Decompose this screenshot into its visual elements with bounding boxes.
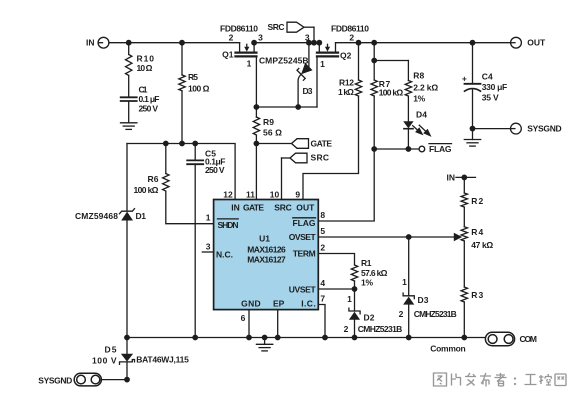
svg-text:1: 1: [320, 59, 325, 69]
svg-text:UVSET: UVSET: [289, 284, 317, 294]
svg-text:Q1: Q1: [222, 49, 234, 59]
svg-text:4: 4: [320, 278, 325, 288]
svg-text:1%: 1%: [413, 93, 425, 103]
svg-text:1: 1: [347, 294, 352, 304]
svg-text:1: 1: [402, 277, 407, 287]
svg-text:MAX16127: MAX16127: [247, 255, 286, 265]
node FLAG net: [371, 146, 419, 152]
terminal FLAG: [419, 144, 452, 155]
svg-text:FDD86110: FDD86110: [220, 23, 258, 33]
node OVSET/D3 tap: [406, 234, 412, 240]
pin numbers top: [223, 189, 300, 199]
capacitor C5: [187, 144, 225, 338]
node gate/R9: [254, 104, 260, 110]
wire pin 4 UVSET: [318, 288, 354, 290]
svg-text:D3: D3: [303, 86, 313, 96]
node Q1 source: [251, 40, 257, 46]
svg-text:100 V: 100 V: [92, 356, 117, 366]
transistor Q1 FDD86110: [220, 23, 263, 68]
capacitor C1: [121, 84, 160, 113]
svg-text:SRC: SRC: [274, 203, 292, 213]
svg-text:D3: D3: [418, 295, 429, 305]
resistor R2: [461, 177, 483, 207]
svg-text:OUT: OUT: [296, 203, 315, 213]
svg-text:SYSGND: SYSGND: [527, 124, 562, 134]
watermark 图片发布者：工控网: [434, 373, 567, 387]
terminal IN: [86, 37, 109, 48]
svg-text:SRC: SRC: [311, 153, 330, 163]
svg-text:57.6 kΩ: 57.6 kΩ: [361, 268, 388, 278]
svg-text:250 V: 250 V: [205, 165, 225, 175]
svg-text:OVSET: OVSET: [289, 232, 317, 242]
node D5 / SYSGND line: [124, 377, 130, 383]
potentiometer R4: [461, 227, 493, 250]
svg-text:CMHZ5231B: CMHZ5231B: [358, 324, 403, 334]
wire R2 to R4: [463, 207, 465, 227]
resistor R9: [253, 107, 282, 138]
wire FLAG to pin 8: [318, 149, 374, 221]
svg-text:3: 3: [305, 33, 310, 43]
svg-text:1%: 1%: [361, 278, 373, 288]
wire D1 to bottom rail: [126, 221, 128, 338]
svg-text:CMPZ5245B: CMPZ5245B: [259, 55, 309, 65]
svg-text:SYSGND: SYSGND: [38, 375, 72, 385]
zener D3 CMPZ5245B: [259, 43, 313, 107]
capacitor C4: [462, 40, 507, 129]
node R6 top: [163, 141, 169, 147]
svg-text:10 Ω: 10 Ω: [137, 63, 153, 73]
svg-text:GATE: GATE: [311, 138, 333, 148]
svg-text:2: 2: [344, 324, 349, 334]
flag SRC middle: [282, 153, 330, 200]
svg-text:100 kΩ: 100 kΩ: [379, 88, 404, 98]
wire R9 bottom to pin 11: [255, 136, 257, 200]
connector SYSGND bottom left: [38, 373, 101, 386]
svg-text:R10: R10: [137, 54, 155, 64]
node rail left / D5: [124, 335, 130, 341]
wire to SYSGND terminal: [473, 128, 511, 130]
resistor R1: [351, 258, 387, 289]
svg-text:GATE: GATE: [243, 203, 264, 213]
wire D1 column: [126, 144, 128, 212]
svg-text:56 Ω: 56 Ω: [263, 128, 282, 138]
node R10 top: [126, 40, 132, 46]
svg-text:SRC: SRC: [268, 22, 285, 32]
node R5 bottom: [179, 141, 185, 147]
wire GND riser: [248, 310, 250, 338]
svg-text:9: 9: [295, 189, 300, 199]
svg-text:R6: R6: [148, 174, 159, 184]
svg-text:R1: R1: [361, 258, 372, 268]
node R12 top: [356, 40, 362, 46]
node pin7 rail: [322, 335, 328, 341]
zener D1 CMZ59468: [75, 209, 146, 222]
wire Q2 gate down: [316, 56, 318, 107]
pin 3 N.C. stub: [202, 242, 213, 252]
svg-text:R8: R8: [413, 70, 424, 80]
svg-text:3: 3: [258, 33, 263, 43]
svg-text:Q2: Q2: [340, 50, 352, 60]
IC U1 MAX16126/MAX16127: [214, 200, 319, 310]
svg-text:11: 11: [246, 189, 255, 199]
node D3 cathode: [295, 104, 301, 110]
svg-text:D1: D1: [136, 211, 147, 221]
svg-text:C4: C4: [482, 72, 493, 82]
node D2 rail: [352, 335, 358, 341]
svg-text:R2: R2: [471, 196, 483, 206]
svg-text:CMHZ5231B: CMHZ5231B: [414, 309, 457, 319]
resistor R8: [405, 61, 438, 104]
svg-text:EP: EP: [273, 298, 285, 308]
wire R8 tap: [374, 60, 408, 62]
resistor R6: [134, 144, 170, 195]
wire EP riser: [277, 310, 279, 338]
node D3 anode / SRC wire / Q2 source: [306, 40, 322, 46]
svg-text:R5: R5: [188, 72, 198, 82]
svg-text:250 V: 250 V: [139, 104, 159, 114]
svg-text:1: 1: [206, 213, 211, 223]
svg-text:47 kΩ: 47 kΩ: [471, 240, 493, 250]
svg-text:MAX16126: MAX16126: [247, 245, 286, 255]
zener D2 CMHZ5231B: [344, 289, 403, 338]
svg-text:1 kΩ: 1 kΩ: [338, 87, 354, 97]
ground under C1: [121, 102, 137, 129]
svg-text:FLAG: FLAG: [429, 144, 452, 154]
wire pin 9 OUT sense: [303, 96, 359, 199]
svg-text:COM: COM: [520, 334, 538, 344]
svg-text:R12: R12: [339, 78, 354, 88]
wire R4 to R3: [463, 241, 465, 287]
svg-text:IN: IN: [231, 203, 240, 213]
svg-text:Common: Common: [430, 344, 466, 354]
resistor R7: [371, 40, 403, 149]
wire OUT rail Q2 to OUT terminal: [336, 42, 511, 44]
svg-text:6: 6: [241, 313, 246, 323]
flag SRC top: [268, 22, 315, 43]
node C4 bottom: [470, 126, 476, 132]
wire pin 2 TERM to R1: [318, 254, 354, 266]
svg-text:IN: IN: [86, 38, 95, 48]
svg-text:CMZ59468: CMZ59468: [75, 211, 118, 221]
node R1/D2/UVSET: [352, 286, 358, 292]
terminal IN right stub: [447, 172, 476, 182]
svg-text:I.C.: I.C.: [301, 298, 316, 308]
ground on rail: [256, 335, 272, 351]
connector COM: [485, 332, 537, 345]
svg-text:FLAG: FLAG: [293, 218, 316, 228]
svg-text:100 Ω: 100 Ω: [188, 83, 210, 93]
node R5 top: [179, 40, 185, 46]
svg-text:R9: R9: [263, 117, 274, 127]
svg-text:2.2 kΩ: 2.2 kΩ: [413, 82, 438, 92]
svg-text:N.C.: N.C.: [216, 250, 233, 260]
wire gate node horizontal: [256, 106, 317, 108]
wiper arrow into R4: [454, 233, 462, 242]
node R3 rail: [461, 335, 467, 341]
svg-text:D2: D2: [364, 312, 375, 322]
ground under C4: [464, 129, 480, 147]
zener D3 CMHZ5231B: [399, 237, 457, 338]
flag GATE: [256, 138, 332, 148]
wire R5 bottom to mid rail: [181, 91, 183, 144]
resistor R12: [338, 43, 362, 97]
wire Q1 gate down: [255, 56, 257, 107]
svg-text:330 μF: 330 μF: [482, 82, 508, 92]
svg-text:R3: R3: [471, 290, 483, 300]
resistor R3: [461, 287, 483, 302]
svg-text:7: 7: [320, 294, 325, 304]
svg-text:2: 2: [349, 33, 354, 43]
svg-text:R4: R4: [471, 227, 483, 237]
svg-text:SHDN: SHDN: [218, 220, 239, 230]
svg-text:U1: U1: [259, 234, 270, 244]
wire R6 bottom to SHDN: [166, 191, 214, 224]
wire pin 7 I.C.: [318, 305, 325, 338]
svg-text:12: 12: [223, 189, 233, 199]
wire bottom common rail: [127, 337, 485, 339]
transistor Q2 FDD86110: [305, 23, 369, 69]
wire SYSGND connector to D5: [101, 379, 127, 381]
wire R10 to C1: [128, 76, 130, 97]
wire R3 to common rail: [463, 302, 465, 338]
svg-text:2: 2: [399, 309, 404, 319]
resistor R5: [179, 43, 210, 94]
schottky D5 BAT46WJ,115: [92, 338, 189, 380]
wire SRC segment Q1-Q2: [254, 42, 319, 44]
svg-text:8: 8: [320, 210, 325, 220]
svg-text:C1: C1: [139, 84, 148, 94]
svg-text:IN: IN: [447, 172, 456, 182]
svg-text:+: +: [462, 74, 467, 84]
node C5 top: [192, 141, 198, 147]
svg-text:35 V: 35 V: [482, 93, 499, 103]
svg-text:D5: D5: [105, 345, 117, 355]
svg-text:BAT46WJ,115: BAT46WJ,115: [136, 355, 189, 365]
svg-text:OUT: OUT: [527, 38, 546, 48]
node R9/GATE flag: [254, 141, 260, 147]
terminal OUT: [511, 37, 546, 48]
svg-text:TERM: TERM: [293, 249, 316, 259]
LED D4: [403, 97, 431, 150]
svg-text:GND: GND: [241, 298, 261, 308]
svg-text:5: 5: [320, 226, 325, 236]
svg-text:100 kΩ: 100 kΩ: [134, 185, 159, 195]
node D3 rail: [406, 335, 412, 341]
node C5 bottom: [192, 335, 198, 341]
wire mid rail (IN net): [127, 144, 235, 200]
resistor R10: [125, 43, 154, 76]
svg-text:D4: D4: [416, 109, 427, 119]
svg-text:1: 1: [247, 59, 252, 69]
svg-text:3: 3: [206, 242, 211, 252]
svg-text:10: 10: [270, 189, 280, 199]
node R8 tap: [371, 58, 377, 64]
wire pin 5 OVSET to R4 wiper: [318, 236, 454, 238]
terminal SYSGND right: [511, 123, 562, 134]
svg-text:2: 2: [320, 243, 325, 253]
svg-text:0.1 μF: 0.1 μF: [139, 94, 160, 104]
svg-text:2: 2: [229, 33, 234, 43]
wire IN rail to Q1 drain: [109, 42, 240, 44]
